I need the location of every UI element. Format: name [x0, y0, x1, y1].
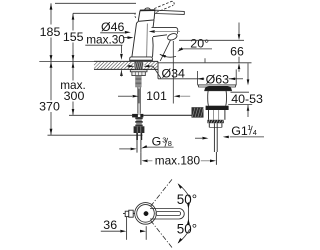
svg-text:155: 155 — [63, 30, 84, 44]
svg-text:370: 370 — [39, 100, 60, 114]
svg-text:101: 101 — [146, 89, 167, 103]
svg-text:36: 36 — [103, 218, 117, 232]
svg-text:300: 300 — [64, 89, 85, 103]
svg-text:4: 4 — [253, 128, 257, 137]
svg-text:max.30: max.30 — [86, 33, 125, 47]
svg-text:8: 8 — [168, 139, 172, 148]
svg-text:50°: 50° — [177, 192, 197, 207]
svg-text:185: 185 — [40, 25, 61, 39]
svg-text:G: G — [152, 134, 162, 148]
svg-text:Ø34: Ø34 — [162, 66, 186, 80]
svg-text:50°: 50° — [177, 222, 197, 237]
svg-text:66: 66 — [230, 44, 244, 58]
svg-text:G1: G1 — [231, 124, 248, 138]
svg-text:max.180: max.180 — [155, 153, 201, 167]
